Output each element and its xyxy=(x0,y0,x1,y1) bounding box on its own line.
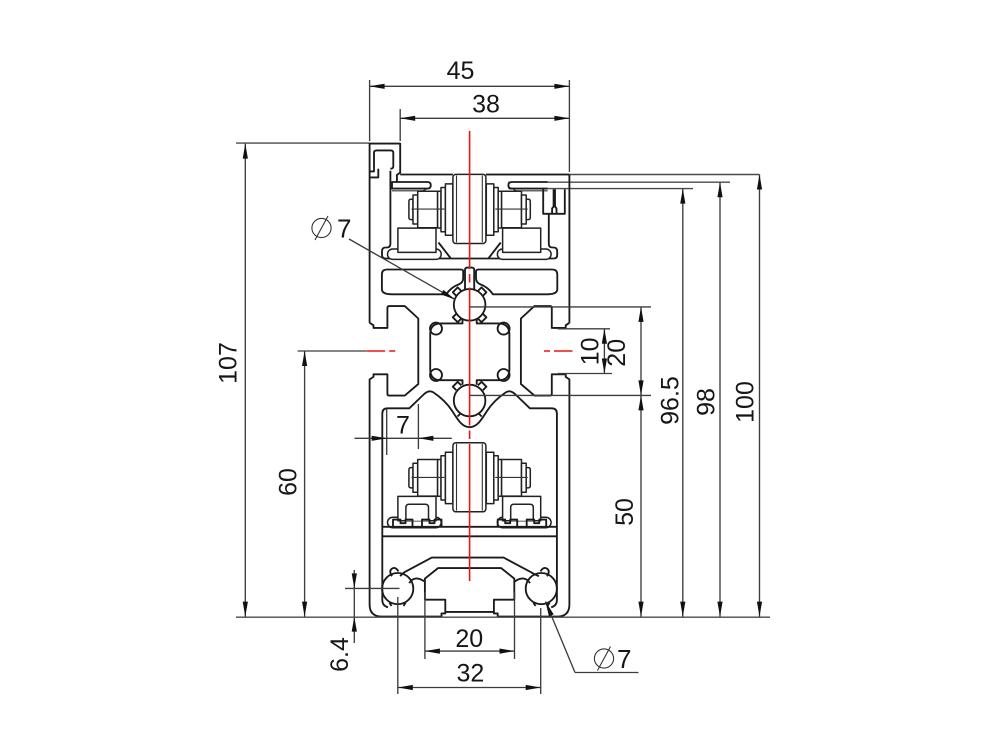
wire 98 extension line at y=182 xyxy=(508,181,730,183)
label diameter 7 bottom xyxy=(594,649,613,668)
profile left tongue rail xyxy=(392,182,431,189)
profile top-left rail pocket neck xyxy=(370,169,379,178)
bottom roller left foot stadium xyxy=(388,517,442,527)
top roller right washer xyxy=(522,195,527,224)
upper bore circle with key tabs xyxy=(454,289,486,321)
svg-text:32: 32 xyxy=(456,660,484,688)
bottom roller wheel xyxy=(453,443,486,512)
svg-text:20: 20 xyxy=(603,339,631,367)
bottom roller axle line left xyxy=(412,476,445,478)
top roller axle line right xyxy=(495,208,528,210)
profile right outer face lower xyxy=(568,379,570,605)
dimension 20 right xyxy=(640,307,642,396)
dimension 60 xyxy=(304,351,306,617)
top roller left cap xyxy=(409,199,413,219)
svg-text:107: 107 xyxy=(215,342,243,384)
top roller left bearing ring mid xyxy=(441,188,445,232)
svg-text:20: 20 xyxy=(455,625,483,653)
bottom roller left bearing ring inner xyxy=(445,452,453,503)
svg-text:7: 7 xyxy=(617,644,631,674)
horizontal red center line left xyxy=(366,350,395,352)
profile right tongue rail xyxy=(508,182,547,189)
top roller right bearing ring outer xyxy=(498,191,501,228)
svg-text:60: 60 xyxy=(275,468,303,496)
profile upper-left cavity xyxy=(382,270,463,295)
svg-text:96.5: 96.5 xyxy=(657,376,685,425)
bottom roller left cap xyxy=(409,468,413,488)
profile top-left rail T-slot pocket xyxy=(374,150,393,168)
bottom roller right bearing ring outer xyxy=(498,460,501,497)
profile channel floor xyxy=(386,258,554,260)
bottom roller left bearing ring mid xyxy=(441,456,445,500)
profile left outer face lower xyxy=(369,379,371,605)
top roller axle line left xyxy=(412,208,445,210)
dimension 20 bottom xyxy=(425,650,515,652)
profile right wall inner face upper xyxy=(549,214,557,259)
top roller right bearing ring inner xyxy=(486,184,494,235)
profile lower channel walls and wavy ceiling xyxy=(382,391,557,607)
svg-text:6.4: 6.4 xyxy=(326,637,354,672)
dimension 38 xyxy=(400,117,569,119)
top roller left spacer block xyxy=(418,191,438,228)
profile top face right segment plus 100 extension xyxy=(486,174,760,176)
top roller right spacer block xyxy=(502,191,522,228)
top roller right foot stadium xyxy=(497,249,551,259)
svg-text:10: 10 xyxy=(577,337,605,365)
dimension 45 extension left xyxy=(369,80,371,141)
bottom floor tooth far-right xyxy=(527,520,547,527)
bottom roller right bearing ring mid xyxy=(494,456,498,500)
top roller wheel xyxy=(453,174,486,243)
svg-text:38: 38 xyxy=(472,91,500,119)
dimension 96.5 xyxy=(682,189,684,617)
top roller left foot stadium xyxy=(388,249,442,259)
bottom roller left spacer block xyxy=(418,460,438,497)
dimension 10 extensions xyxy=(558,328,610,330)
label diameter 7 top xyxy=(312,218,331,237)
top roller left washer xyxy=(413,195,418,224)
dimension 7 extension lines xyxy=(386,409,388,455)
bottom roller left washer xyxy=(413,463,418,492)
horizontal red center line right xyxy=(544,350,573,352)
dimension 7 line xyxy=(355,437,452,439)
profile bottom interior ceiling xyxy=(383,535,557,537)
bottom roller right foot stadium xyxy=(497,517,551,527)
dimension 32 bottom xyxy=(398,687,541,689)
dimension 45 xyxy=(370,85,570,87)
profile lower channel floor xyxy=(382,526,556,528)
wire top extension line for 107 at profile top xyxy=(236,142,370,144)
bottom extension line xyxy=(236,616,770,618)
svg-text:98: 98 xyxy=(693,388,721,416)
bottom roller left rail block xyxy=(398,496,436,520)
profile floor ramp left xyxy=(439,243,451,259)
lower bore circle with key tabs xyxy=(454,385,486,417)
profile floor ramp right xyxy=(489,243,501,259)
dimension 20 bottom extensions xyxy=(424,592,426,659)
profile bottom channel outer ceiling xyxy=(400,558,539,577)
profile upper-right cavity xyxy=(476,270,557,295)
bottom roller left bearing ring outer xyxy=(438,460,441,497)
upper bore slit xyxy=(465,268,474,291)
svg-text:7: 7 xyxy=(396,412,410,440)
top roller left bearing ring outer xyxy=(438,191,441,228)
wire 96.5 extension line at y=188.6 xyxy=(508,188,693,190)
top roller right bearing ring mid xyxy=(494,188,498,232)
top roller left rail block xyxy=(398,228,436,252)
bottom roller right bearing ring inner xyxy=(486,452,494,503)
dimension 50 xyxy=(640,395,642,616)
dimension 107 xyxy=(244,144,246,617)
bottom roller right washer xyxy=(522,463,527,492)
dimension 6.4 line xyxy=(353,570,355,643)
dimension 10 xyxy=(603,329,605,374)
right T-slot xyxy=(521,306,570,396)
profile bottom channel inner mouth xyxy=(425,568,514,600)
dimension 98 xyxy=(719,182,721,616)
bottom roller right cap xyxy=(526,468,530,488)
bottom roller right rail block inner cutout xyxy=(511,504,534,521)
bottom floor tooth far-left xyxy=(393,520,413,527)
dimension 6.4 extension xyxy=(345,587,400,589)
central cavity xyxy=(430,319,509,385)
dimension 45/38 extension right xyxy=(568,80,570,172)
bottom floor tooth mid-right xyxy=(498,520,518,527)
top roller right cap xyxy=(526,199,530,219)
bottom roller left rail block inner cutout xyxy=(406,504,429,521)
left screw boss ear xyxy=(382,573,413,604)
svg-text:45: 45 xyxy=(447,57,475,85)
left T-slot xyxy=(370,306,419,396)
bottom roller right spacer block xyxy=(502,460,522,497)
bottom floor tooth mid-left xyxy=(422,520,442,527)
dimension 32 bottom extensions xyxy=(397,597,399,694)
profile right outer face upper xyxy=(568,175,570,323)
profile top face left segment xyxy=(400,174,453,176)
svg-text:100: 100 xyxy=(732,381,760,423)
profile top-right mini T-slot xyxy=(543,189,565,214)
bottom roller axle line right xyxy=(495,476,528,478)
right screw boss ear xyxy=(526,573,557,604)
bottom roller right rail block xyxy=(503,496,541,520)
profile top-left rail outline xyxy=(370,144,401,323)
svg-text:50: 50 xyxy=(611,498,639,526)
profile bottom outline with groove xyxy=(370,604,570,616)
dimension 38 extension left xyxy=(399,109,401,141)
dimension 100 xyxy=(759,175,761,617)
profile left wall inner face upper xyxy=(382,171,390,259)
dimension 60 extension xyxy=(298,350,366,352)
top roller right rail block xyxy=(503,228,541,252)
top roller left bearing ring inner xyxy=(445,184,453,235)
dimension 20 right extensions xyxy=(470,306,651,308)
vertical red center line xyxy=(469,131,471,581)
